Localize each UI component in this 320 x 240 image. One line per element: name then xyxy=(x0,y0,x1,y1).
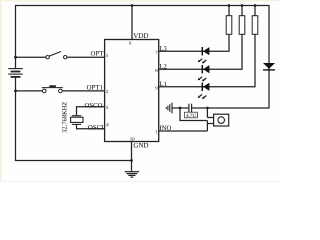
svg-text:4.7U: 4.7U xyxy=(186,113,196,119)
LED D3 on L1 row xyxy=(198,83,210,99)
wire GND drop xyxy=(131,142,133,172)
wire OSCO xyxy=(77,107,105,115)
wire left rail lower xyxy=(15,77,17,161)
scan edge tint bottom xyxy=(0,181,280,182)
svg-text:10: 10 xyxy=(130,136,135,142)
node B cap right xyxy=(206,107,209,110)
wire top rail xyxy=(15,5,270,7)
wire OSCI xyxy=(77,125,105,129)
LED D1 on L3 row xyxy=(198,47,210,63)
node battery to OPT1 xyxy=(14,90,17,93)
svg-text:OPT: OPT xyxy=(91,51,105,58)
wire right edge xyxy=(268,6,270,109)
svg-text:L1: L1 xyxy=(160,81,167,88)
diode D4 on right edge xyxy=(263,63,275,70)
wire OPT1 left segment xyxy=(15,90,43,92)
resistor R2 xyxy=(239,16,245,35)
node R3 at rail xyxy=(254,4,257,7)
ground left-pointing at capacitor xyxy=(166,103,172,114)
wire VDD drop xyxy=(131,6,133,40)
ground earth at GND pin xyxy=(125,172,140,177)
resistor R3 xyxy=(252,16,258,35)
wire OPT right segment xyxy=(67,56,105,58)
scan edge tint left xyxy=(0,0,2,182)
node R2 at rail xyxy=(241,4,244,7)
wire mic lower stub and INO vertical xyxy=(207,121,213,132)
battery B1 xyxy=(8,69,23,77)
node GND at bottom rail xyxy=(130,159,133,162)
wire R2 top stub xyxy=(241,6,243,16)
svg-text:32.768KHZ: 32.768KHZ xyxy=(62,102,69,133)
wire L2 row xyxy=(159,34,242,69)
wire node-A branch to mic net xyxy=(180,108,207,121)
wire node-B branch to mic upper stub xyxy=(207,108,213,118)
push button S2 on OPT1 xyxy=(42,85,63,92)
svg-text:OSCO: OSCO xyxy=(84,102,102,109)
wire left rail upper xyxy=(15,5,17,68)
capacitor C1 plates xyxy=(189,104,192,113)
svg-text:OPT1: OPT1 xyxy=(87,85,103,92)
node R1 at rail xyxy=(228,4,231,7)
wire main bottom-right, right of cap xyxy=(192,107,269,109)
capacitor C1 value box 4.7U xyxy=(185,112,198,118)
node A cap left xyxy=(179,107,182,110)
wire L1 row xyxy=(159,34,255,87)
microphone MIC1 xyxy=(214,114,229,126)
node battery to OPT xyxy=(14,56,17,59)
wire INO xyxy=(159,130,208,132)
wire R3 top stub xyxy=(254,6,256,16)
LED D2 on L2 row xyxy=(198,65,210,81)
svg-text:OSCI: OSCI xyxy=(88,125,104,132)
scan edge tint top xyxy=(0,0,280,1)
crystal Y1 xyxy=(71,116,83,125)
IC U1 box xyxy=(105,40,159,142)
svg-text:L3: L3 xyxy=(160,45,168,52)
switch S1 on OPT xyxy=(46,52,67,59)
svg-text:VDD: VDD xyxy=(133,32,148,40)
wire OPT1 right segment xyxy=(62,90,104,92)
svg-text:INO: INO xyxy=(160,125,172,132)
wire R1 top stub xyxy=(228,6,230,16)
wire main bottom-right, left of cap xyxy=(172,107,188,109)
svg-text:GND: GND xyxy=(133,142,148,150)
wire OPT left segment xyxy=(15,56,46,58)
svg-text:L2: L2 xyxy=(160,63,167,70)
wire L3 row xyxy=(159,34,229,51)
resistor R1 xyxy=(226,16,232,35)
wire bottom rail xyxy=(15,160,132,162)
node VDD at rail xyxy=(131,4,134,7)
